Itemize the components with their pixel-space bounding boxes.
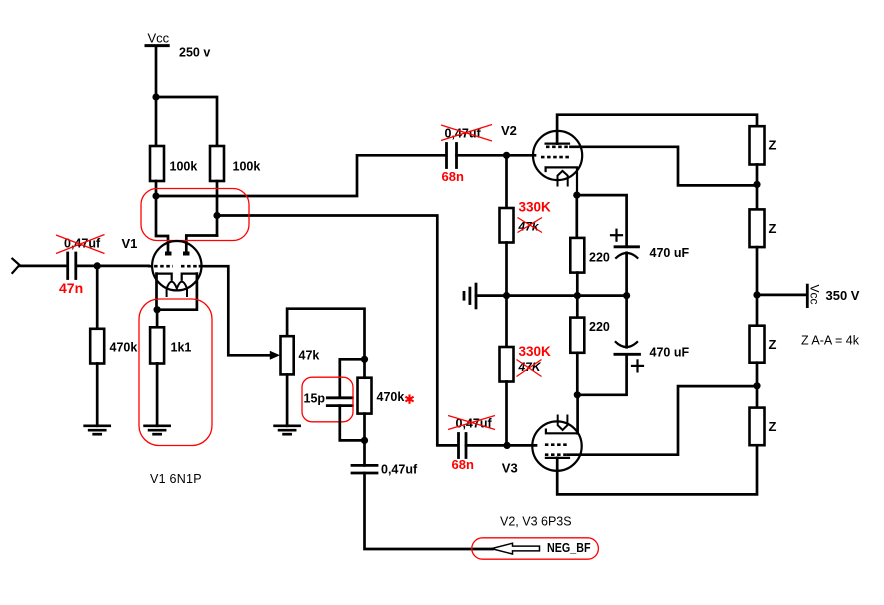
node center tap xyxy=(753,291,760,298)
svg-text:470k: 470k xyxy=(110,341,138,355)
svg-text:330K: 330K xyxy=(519,200,552,215)
wire bottom node to C5 xyxy=(363,440,366,465)
node V3 grid xyxy=(503,442,510,449)
svg-text:470k: 470k xyxy=(377,390,405,404)
resistor R6 470k feedback xyxy=(358,378,372,414)
svg-text:V2, V3 6P3S: V2, V3 6P3S xyxy=(500,515,572,529)
tube V3 cathode xyxy=(546,430,578,434)
label C6 plus sign xyxy=(611,230,622,241)
svg-text:100k: 100k xyxy=(233,160,261,174)
wire V2 cathode node to C6 xyxy=(577,195,627,247)
wire V3 screen to Z3/Z4 tap xyxy=(568,386,757,455)
capacitor C1 47n input xyxy=(68,253,76,279)
wire rail to C7 xyxy=(625,296,628,348)
tube V1 6N1P envelope xyxy=(152,241,201,290)
svg-text:V2: V2 xyxy=(501,123,517,138)
wire R3 to ground xyxy=(96,364,99,426)
svg-text:15p: 15p xyxy=(304,392,326,406)
wire R9 to rail xyxy=(576,273,579,318)
svg-text:330K: 330K xyxy=(519,344,552,359)
label R6 red asterisk xyxy=(405,394,413,403)
node R2 output xyxy=(213,212,220,219)
wire grid node into V3 xyxy=(507,444,536,447)
tube V3 anode plate xyxy=(546,457,569,459)
svg-text:Vcc: Vcc xyxy=(148,31,170,46)
tube V1 grid B dashes xyxy=(181,265,200,268)
wire node down to R3 xyxy=(96,266,99,329)
node R1 output xyxy=(152,192,159,199)
annotation red ellipse around NEG_BF xyxy=(472,538,599,559)
wire R2 bottom xyxy=(216,181,219,236)
wire feedback node to R6 xyxy=(363,359,366,377)
transformer winding Z3 xyxy=(750,326,765,363)
svg-text:250 v: 250 v xyxy=(179,46,210,60)
wire R10 to V3 cathode node xyxy=(576,353,579,395)
wire Z2 to Z3 xyxy=(756,247,759,326)
wire ground rail xyxy=(476,294,627,297)
tube V2 screen grid dashes xyxy=(546,146,571,149)
wire R5 bottom to ground xyxy=(286,374,289,425)
wire V3 anode to Z4 xyxy=(557,445,757,494)
wire V2 anode to Z1 xyxy=(557,115,757,144)
wire Vcc down to branch xyxy=(155,47,158,146)
wire V2 screen to Z1/Z2 tap xyxy=(571,147,758,186)
wire V1 cathode A down xyxy=(155,274,158,310)
wire R8 to V3 grid node xyxy=(505,382,508,446)
wire feedback node to C4 branch xyxy=(340,359,365,397)
wire V2 grid node down to R7 xyxy=(505,155,508,208)
wire grid node into V2 xyxy=(507,154,536,157)
svg-text:Z: Z xyxy=(769,221,777,236)
tube V3 screen grid dashes xyxy=(545,453,568,456)
wire C2 to V2 grid node xyxy=(457,154,507,157)
wire input to C1 xyxy=(20,265,68,268)
ground symbol (left pointing) xyxy=(464,284,476,308)
node feedback top xyxy=(361,356,368,363)
resistor R7 330K (grid leak V2) xyxy=(500,208,514,243)
node input grid junction xyxy=(94,262,101,269)
svg-text:470 uF: 470 uF xyxy=(650,346,690,360)
svg-text:V1 6N1P: V1 6N1P xyxy=(150,472,202,486)
tube V1 right anode plate xyxy=(183,252,190,256)
tube V2 cathode xyxy=(546,167,577,195)
resistor R3 470k xyxy=(90,329,104,364)
transformer winding Z4 xyxy=(750,408,765,446)
wire C5 down to NEG_BF xyxy=(365,473,493,549)
wire C6 to rail xyxy=(625,253,628,296)
tube V2 anode plate xyxy=(546,143,569,145)
label C7 plus sign xyxy=(632,360,643,371)
tube V1 heater filament xyxy=(167,282,187,296)
input terminal chevron xyxy=(12,259,19,273)
capacitor C3 68n (V3 coupling) xyxy=(459,434,467,458)
wire R2 down to V1 right anode xyxy=(186,236,217,253)
svg-text:Vcc: Vcc xyxy=(808,285,822,305)
node Vcc branch junction xyxy=(152,93,159,100)
potentiometer R5 47k xyxy=(281,336,294,374)
resistor R8 330K (grid leak V3) xyxy=(500,347,514,382)
capacitor C2 68n (V2 coupling) xyxy=(447,144,457,168)
svg-text:Z: Z xyxy=(769,419,777,434)
svg-text:470 uF: 470 uF xyxy=(650,246,690,260)
tube V2 heater xyxy=(558,171,568,186)
svg-text:1k1: 1k1 xyxy=(171,341,192,355)
wire Z3 to Z4 xyxy=(756,363,759,408)
capacitor C6 470uF upper xyxy=(615,247,639,259)
annotation red box around C4 xyxy=(302,377,353,422)
pot wiper arrowhead xyxy=(270,351,280,360)
resistor R9 220 xyxy=(570,238,584,273)
transformer winding Z1 xyxy=(750,126,765,164)
annotation red cross over C2 label xyxy=(441,125,492,142)
resistor R4 1k1 xyxy=(150,327,164,363)
node Z1/Z2 tap xyxy=(753,181,760,188)
transformer winding Z2 xyxy=(750,209,765,247)
tube V1 cathode A xyxy=(157,274,172,280)
power Vcc 250v symbol xyxy=(146,31,170,46)
wire V1 grid B to pot wiper xyxy=(200,266,271,355)
wire R5 top to feedback node xyxy=(287,309,364,360)
tube V2 6P3S envelope xyxy=(533,131,582,180)
wire V3 cathode node down into tube xyxy=(576,395,579,434)
node V1 cathodes junction xyxy=(154,306,161,313)
annotation red box around V1 anode wiring xyxy=(141,189,249,241)
svg-text:Z: Z xyxy=(769,138,777,153)
wire R4 to ground xyxy=(156,364,159,426)
net flag NEG_BF arrow xyxy=(492,543,540,554)
svg-text:47n: 47n xyxy=(59,280,83,296)
power Vcc 350V symbol xyxy=(807,285,821,307)
wire C7 to V3 cathode node xyxy=(577,354,626,395)
svg-text:68n: 68n xyxy=(442,169,464,184)
node Z3/Z4 tap xyxy=(753,382,760,389)
wire R6 to bottom node xyxy=(363,414,366,441)
ground under R4 xyxy=(145,426,170,434)
svg-text:Z A-A = 4k: Z A-A = 4k xyxy=(801,334,860,348)
svg-text:V1: V1 xyxy=(122,236,138,251)
annotation red cross over R7 47k xyxy=(518,218,543,233)
capacitor C5 0,47uf feedback xyxy=(352,465,377,473)
annotation red cross over C3 label xyxy=(448,416,495,430)
svg-text:V3: V3 xyxy=(502,460,518,475)
wire cathode node to R4 xyxy=(156,310,159,328)
wire V2 cathode node to R9 xyxy=(575,195,578,238)
node rail 220s xyxy=(574,292,581,299)
node feedback bottom xyxy=(361,437,368,444)
wire R1 bottom xyxy=(155,181,158,196)
node rail R7/R8 xyxy=(503,292,510,299)
wire center tap to Vcc xyxy=(757,294,806,297)
svg-text:0,47uf: 0,47uf xyxy=(381,463,418,477)
tube V3 control grid dashes xyxy=(545,443,569,446)
wire R1 node to C2 (V2 coupling) xyxy=(156,155,446,196)
resistor R1 100k xyxy=(150,146,164,181)
wire V1 cathode B down and across xyxy=(157,274,197,310)
wire C1 to V1 grid xyxy=(76,265,149,268)
tube V3 heater xyxy=(558,416,568,431)
svg-text:Z: Z xyxy=(769,337,777,352)
svg-text:220: 220 xyxy=(589,251,610,265)
ground under R3 xyxy=(85,426,110,434)
tube V2 control grid dashes xyxy=(541,156,569,159)
svg-text:100k: 100k xyxy=(170,160,198,174)
wire R7 to ground rail xyxy=(505,243,508,296)
tube V1 grid A dashes xyxy=(148,265,173,268)
node rail caps xyxy=(623,292,630,299)
svg-text:NEG_BF: NEG_BF xyxy=(547,540,591,555)
capacitor C4 15p xyxy=(327,398,352,406)
ground under R5 xyxy=(275,426,300,434)
tube V3 6P3S envelope xyxy=(532,421,581,470)
tube V1 left anode plate xyxy=(165,252,172,256)
resistor R2 100k xyxy=(210,146,224,181)
node V2 cathode xyxy=(573,192,580,199)
wire R2 node to C3 (V3 coupling) xyxy=(217,216,458,446)
annotation red cross over R8 47k xyxy=(517,360,542,377)
svg-text:68n: 68n xyxy=(452,457,474,472)
wire Z1 to Z2 xyxy=(756,165,759,210)
wire rail down to R8 xyxy=(505,296,508,347)
wire branch to R2 xyxy=(156,97,217,146)
annotation red box around R4 cathode resistor xyxy=(139,299,212,446)
annotation red cross over 0,47uf xyxy=(56,235,105,254)
wire R1 node down to V1 left anode xyxy=(156,196,168,253)
resistor R10 220 xyxy=(570,318,584,353)
node V3 cathode xyxy=(574,391,581,398)
tube V1 cathode B xyxy=(182,274,197,280)
capacitor C7 470uF lower xyxy=(615,341,640,354)
svg-text:220: 220 xyxy=(589,320,610,334)
svg-text:47k: 47k xyxy=(299,349,320,363)
svg-text:350 V: 350 V xyxy=(826,288,860,303)
node V2 grid xyxy=(503,152,510,159)
wire C4 bottom to feedback bottom node xyxy=(340,406,365,441)
wire C3 to V3 grid node xyxy=(466,444,507,447)
